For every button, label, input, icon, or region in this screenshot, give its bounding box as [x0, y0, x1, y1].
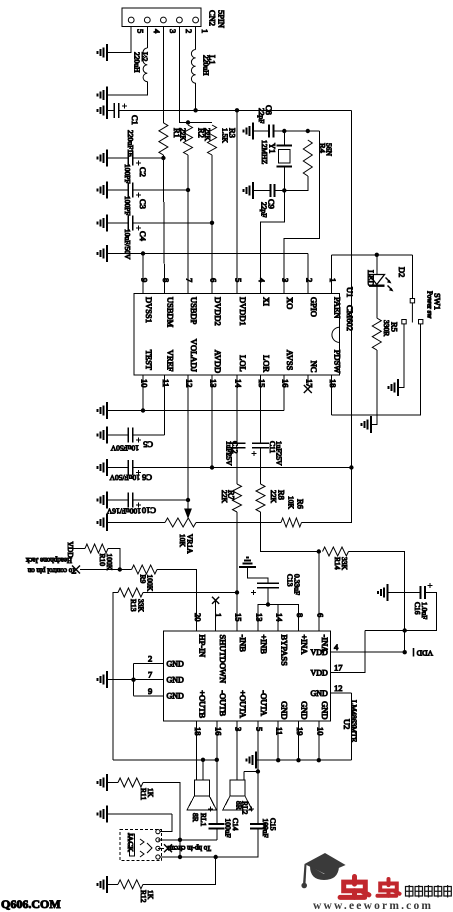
ground G13 for C5 — [98, 427, 108, 444]
wire C15 to jack line — [158, 829, 258, 858]
node C4-R3 junction — [210, 221, 214, 225]
capacitor C1 220uF16 — [114, 103, 119, 118]
node TEST junction — [141, 408, 145, 412]
svg-text:2: 2 — [304, 278, 314, 282]
wire C15 column — [257, 772, 259, 825]
svg-text:AVSS: AVSS — [285, 350, 295, 371]
wire R10 to node — [108, 549, 120, 570]
ground G17 for C13 — [239, 558, 256, 568]
svg-text:8R: 8R — [191, 813, 200, 822]
wire crystal bottom to XI — [261, 190, 285, 293]
svg-text:22K: 22K — [179, 128, 188, 142]
ground G21 for R11 — [98, 774, 108, 791]
speaker RL1 8R — [187, 760, 217, 810]
U2 bottom pin names — [198, 690, 330, 719]
svg-text:SHUTDOWN: SHUTDOWN — [218, 635, 228, 684]
svg-text:USBDM: USBDM — [166, 297, 176, 328]
svg-text:C10: C10 — [142, 506, 156, 516]
wire R1 to C2 node — [162, 155, 164, 158]
wire USBDP column — [187, 190, 189, 294]
node bus-railA junction — [349, 465, 353, 469]
svg-text:22K: 22K — [220, 490, 229, 504]
svg-text:VOLADJ: VOLADJ — [189, 339, 199, 373]
node R2 top junction — [186, 120, 190, 124]
svg-text:10K: 10K — [287, 496, 296, 510]
ground G8 for C8 — [244, 123, 254, 140]
wire GPIO pin stub — [307, 254, 309, 294]
U2 left GND pins 2 7 9 — [134, 654, 185, 701]
wire LOR pin stub — [260, 375, 262, 443]
svg-text:3: 3 — [281, 278, 291, 282]
svg-text:Q606.COM: Q606.COM — [1, 897, 61, 911]
ground G20 for U2 bottom — [247, 752, 257, 769]
U1 top pin names — [144, 297, 343, 328]
inductor L2 — [143, 48, 147, 82]
wire bypass bracket — [258, 605, 299, 632]
ground G23 for jack top contact — [98, 806, 108, 823]
svg-text:18: 18 — [193, 727, 203, 736]
wire CN2 pin2 down (USB D-) — [179, 27, 212, 123]
svg-text:+OUTB: +OUTB — [198, 690, 208, 718]
wire AVDD rail — [133, 467, 352, 469]
wire gnd to C13 — [248, 567, 269, 583]
LED D2 — [369, 275, 385, 286]
node bypass junction — [266, 602, 270, 606]
U2 top pin names — [198, 635, 330, 684]
ground G22 for R12 — [98, 876, 108, 893]
svg-text:16: 16 — [213, 727, 223, 736]
wire LOL pin stub — [236, 375, 238, 443]
wire DVDD1 column — [236, 110, 238, 293]
svg-text:www.eeworm.com: www.eeworm.com — [313, 900, 433, 912]
svg-text:13: 13 — [209, 379, 219, 388]
svg-text:R8: R8 — [277, 490, 287, 500]
svg-text:To control pin on: To control pin on — [27, 567, 76, 575]
wire PAEN to SW1 — [411, 255, 413, 299]
resistor R14 33K — [323, 547, 349, 556]
svg-text:PAEN: PAEN — [333, 297, 343, 318]
ground G14 for C6 — [98, 459, 108, 476]
svg-text:56N: 56N — [325, 143, 334, 157]
svg-text:100PF: 100PF — [123, 164, 132, 184]
ground G2 — [98, 86, 108, 103]
svg-text:2: 2 — [148, 654, 152, 664]
svg-text:5PIN: 5PIN — [217, 10, 227, 28]
svg-text:2: 2 — [184, 29, 194, 33]
wire C14 to jack line — [216, 829, 218, 840]
wire jack circle1 riser — [158, 814, 172, 831]
wire VDD to R10 — [68, 548, 85, 550]
switch SW1 Power sw — [402, 299, 423, 324]
node -INA junction — [317, 549, 321, 553]
connector CN2 5PIN — [122, 8, 201, 27]
svg-text:VDD: VDD — [66, 542, 75, 559]
svg-text:7: 7 — [148, 670, 152, 680]
node VOLADJ-wiper junction — [186, 498, 190, 502]
svg-text:19: 19 — [295, 727, 305, 736]
no-connect X on jack circle3 — [158, 847, 164, 849]
ground G15 for C10 — [98, 492, 108, 509]
svg-text:6: 6 — [209, 278, 219, 282]
svg-text:33K: 33K — [137, 599, 146, 613]
svg-text:-OUTB: -OUTB — [218, 690, 228, 716]
VDD terminal right — [413, 648, 415, 657]
svg-text:9: 9 — [140, 278, 150, 282]
wire CN2 pin1 to L1 — [195, 27, 197, 50]
wire R8 to -INA jog — [261, 512, 319, 552]
svg-text:14: 14 — [275, 613, 285, 622]
SHUTDOWN pin stub — [215, 601, 217, 631]
no-connect X on NC pin17 — [307, 375, 309, 386]
node DVSS1 junction — [141, 251, 145, 255]
svg-text:TEST: TEST — [144, 350, 154, 371]
svg-text:To hp-in circuit: To hp-in circuit — [168, 844, 211, 852]
svg-text:C15: C15 — [269, 818, 278, 831]
U1 bottom pin numbers 10..18 — [140, 379, 339, 388]
resistor R11 1K — [118, 778, 143, 787]
wire PAEN pin stub — [331, 255, 333, 294]
node R12 riser junction — [214, 855, 218, 859]
wire L1 to VDD rail — [195, 83, 197, 110]
wire GND pin stubs — [278, 721, 319, 760]
wire pin12 to ground rail — [350, 693, 352, 760]
svg-text:LED: LED — [366, 270, 376, 287]
ground G1 — [98, 44, 108, 61]
svg-text:11: 11 — [275, 727, 285, 735]
svg-text:LOR: LOR — [262, 355, 272, 372]
resistor R8 — [260, 448, 262, 484]
capacitor C8 22pF — [253, 130, 269, 132]
wire AVDD pin stub — [211, 375, 213, 468]
svg-text:DVSS1: DVSS1 — [144, 297, 154, 323]
ground G11 for SW1 — [389, 379, 399, 396]
wire PAEN rail — [332, 254, 413, 256]
no-connect X on SHUTDOWN — [212, 597, 219, 604]
svg-text:USBDP: USBDP — [189, 297, 199, 325]
svg-text:RL1: RL1 — [199, 813, 208, 827]
wire -INA column — [318, 552, 320, 632]
node crystal bottom — [282, 188, 286, 192]
wire C4 to node — [133, 222, 212, 224]
wire -OUTA to RL2 — [244, 771, 258, 773]
op-amp U1 CM602 body — [134, 294, 340, 376]
U2 right pins 4 17 12 — [310, 642, 404, 698]
svg-text:12: 12 — [334, 683, 343, 693]
svg-text:RL2: RL2 — [241, 801, 250, 815]
svg-text:20: 20 — [193, 613, 203, 622]
ground G4 for C2 — [98, 150, 108, 167]
svg-text:1uF25V: 1uF25V — [275, 441, 284, 466]
ground G5 for C3 — [98, 182, 108, 199]
svg-text:R5: R5 — [390, 322, 400, 332]
node DVDD1-rail junction — [235, 108, 239, 112]
resistor R6 — [281, 518, 302, 527]
svg-text:1K: 1K — [146, 788, 155, 798]
svg-text:+INA: +INA — [300, 635, 310, 656]
svg-text:D2: D2 — [397, 267, 407, 277]
svg-text:GND: GND — [300, 701, 310, 719]
node GND bracket junction — [131, 678, 135, 682]
wire CN2 pin5 to ground — [107, 27, 131, 53]
svg-text:VR1A: VR1A — [186, 534, 195, 554]
resistor R3 — [208, 125, 217, 155]
node jack-R11 column top — [178, 838, 182, 842]
resistor R10 100K — [85, 544, 108, 553]
node R4 top — [306, 129, 310, 133]
wire DVDD2 column — [211, 223, 213, 294]
svg-text:-OUTA: -OUTA — [259, 690, 269, 717]
op-amp U2 LM4863MTE body — [164, 631, 331, 721]
wire jack ground line — [107, 813, 172, 815]
inductor L1 — [191, 50, 195, 84]
U1 top pin numbers 9..1 — [140, 278, 339, 283]
node jack-R12 junction — [178, 855, 182, 859]
svg-text:10uF50V: 10uF50V — [110, 444, 139, 453]
svg-text:NC: NC — [309, 361, 319, 373]
ground G10 for R5 — [362, 416, 372, 433]
svg-text:5: 5 — [234, 278, 244, 282]
potentiometer VR1A 10K — [165, 518, 196, 527]
svg-text:AVDD: AVDD — [213, 350, 223, 373]
svg-text:1K: 1K — [146, 890, 155, 900]
svg-text:100K: 100K — [146, 575, 155, 592]
wire R12 to jack riser — [143, 857, 216, 884]
VR1A wiper arrow — [187, 500, 189, 509]
svg-text:0.33uF: 0.33uF — [293, 574, 302, 595]
ground G19 for U2 left — [98, 671, 108, 688]
wire BYPASS pin stub — [277, 605, 279, 632]
svg-text:1.0uF: 1.0uF — [420, 602, 429, 619]
svg-text:10: 10 — [140, 379, 150, 388]
node C3-R2 junction — [186, 188, 190, 192]
headphone jack dashed box — [120, 830, 162, 861]
U1 bottom pin names — [144, 339, 343, 374]
capacitor C11 1uF25V — [252, 443, 269, 448]
ground G3 for C1 — [98, 102, 108, 119]
svg-text:16: 16 — [281, 379, 291, 388]
node C2-R1 junction — [161, 156, 165, 160]
wire R3 to C4 node — [211, 155, 213, 223]
ground G6 for C4 — [98, 214, 108, 231]
wire DVSS1 pin stub — [142, 254, 144, 294]
node AVDD junction — [210, 465, 214, 469]
node R13 - INB junction — [235, 590, 239, 594]
ground G16 for VR1A — [98, 514, 108, 531]
node R10-R9 junction — [118, 567, 122, 571]
capacitor C14 100uF — [208, 807, 213, 812]
ground G9 for C9 — [244, 182, 254, 199]
pin numbers CN2 — [136, 29, 210, 34]
capacitor C13 0.33uF — [257, 583, 279, 587]
wire TEST pin stub — [142, 375, 144, 411]
node L1-rail junction — [193, 108, 197, 112]
wire +OUTA to speaker — [236, 721, 238, 780]
capacitor C16 1.0uF — [388, 592, 421, 594]
wire jack circle2 to C14 line — [158, 839, 217, 841]
svg-text:9: 9 — [148, 686, 152, 696]
wire USBDM column — [163, 158, 164, 294]
svg-text:C2: C2 — [138, 167, 148, 177]
svg-text:1: 1 — [213, 613, 223, 617]
svg-text:100K: 100K — [105, 554, 114, 571]
svg-text:33K: 33K — [340, 557, 349, 571]
svg-text:CN2: CN2 — [208, 10, 218, 26]
wire C2 to node — [133, 157, 164, 159]
wire crystal top to XO — [284, 131, 319, 294]
svg-text:GPIO: GPIO — [309, 297, 319, 317]
svg-text:-INB: -INB — [238, 635, 248, 653]
resistor R13 33K — [118, 588, 143, 597]
wire R5 to ground — [371, 350, 377, 424]
resistor R5 — [372, 318, 381, 350]
resistor R12 1K — [118, 880, 143, 889]
node -OUTA junction — [256, 769, 260, 773]
wire C13 to bypass bracket — [267, 588, 269, 605]
wire R6 to VDD bus — [302, 522, 352, 525]
svg-text:11: 11 — [161, 379, 171, 387]
ground G12 for TEST rail — [98, 402, 108, 419]
svg-text:DVDD1: DVDD1 — [238, 297, 248, 326]
svg-text:XI: XI — [262, 297, 272, 306]
svg-text:220uF16: 220uF16 — [126, 130, 135, 157]
svg-text:VDD: VDD — [310, 668, 328, 677]
svg-text:XO: XO — [285, 297, 295, 309]
wire bracket to ground — [107, 679, 134, 681]
capacitor C6 10uF/50V — [107, 467, 128, 469]
wire -OUTA column — [257, 721, 259, 772]
resistor R7 — [236, 448, 238, 484]
capacitor C15 100uF — [249, 807, 254, 812]
node GND pin11 — [276, 758, 280, 762]
capacitor C10 100uF/16V — [107, 499, 128, 501]
svg-text:CM602: CM602 — [345, 305, 355, 331]
wire R11 to jack — [143, 783, 180, 858]
svg-text:VREF: VREF — [166, 350, 176, 372]
svg-text:BYPASS: BYPASS — [279, 635, 289, 667]
wire C16 to VDD node — [365, 593, 437, 631]
capacitor C5 10uF50V — [107, 434, 128, 436]
resistor R9 100K — [120, 569, 132, 571]
LED D2 arrows — [386, 278, 394, 292]
svg-text:12: 12 — [185, 379, 195, 388]
wire CN2 pin4 to L2 — [146, 27, 148, 49]
wire gnd to C1 — [107, 109, 114, 111]
wire LED anode — [376, 255, 378, 275]
wire VDD bus right side — [350, 110, 352, 523]
resistor R1 — [159, 123, 168, 155]
svg-text:6: 6 — [315, 613, 325, 617]
watermark chongchong red character 2 — [377, 879, 399, 896]
watermark graduation cap logo — [301, 853, 345, 888]
node crystal top — [282, 129, 286, 133]
wire R4 bottom to crystal bottom — [284, 176, 308, 190]
svg-text:R6: R6 — [296, 499, 306, 509]
svg-text:1: 1 — [328, 278, 338, 282]
node C16-VDD junction — [403, 628, 407, 632]
svg-text:GND: GND — [279, 701, 289, 719]
svg-text:18: 18 — [328, 379, 338, 388]
wire DVSS1 ground rail — [107, 253, 308, 255]
svg-text:GND: GND — [320, 701, 330, 719]
speaker RL2 8R — [223, 772, 253, 811]
svg-text:Power sw: Power sw — [426, 291, 434, 319]
svg-text:VDD: VDD — [310, 648, 328, 657]
node GND pin19 — [296, 758, 300, 762]
svg-text:1uF25V: 1uF25V — [225, 441, 234, 466]
wire AVSS pin stub — [283, 375, 285, 411]
wire -OUTB column — [216, 721, 218, 824]
svg-text:R3: R3 — [228, 128, 238, 138]
svg-text:10uF/50V: 10uF/50V — [123, 229, 132, 260]
wire R13 feedback rail — [113, 759, 217, 761]
capacitor C12 1uF25V — [229, 443, 246, 448]
svg-text:13: 13 — [254, 613, 264, 622]
svg-text:5: 5 — [136, 29, 146, 33]
watermark chongchong red character 1 — [340, 877, 369, 898]
capacitor C4 10uF/50V — [107, 222, 128, 224]
svg-text:220uH: 220uH — [133, 52, 142, 73]
VDD terminal left — [67, 542, 69, 549]
wire VREF pin stub — [164, 375, 166, 435]
wire U2 GND rail — [256, 759, 351, 761]
wire R13 to -INB node — [143, 592, 237, 594]
svg-text:12MHZ: 12MHZ — [260, 140, 269, 165]
ground G18 for C16 — [378, 584, 388, 601]
svg-text:+OUTA: +OUTA — [238, 690, 248, 719]
wire TEST/AVSS ground rail — [107, 410, 284, 412]
svg-text:15: 15 — [234, 613, 244, 622]
capacitor C3 100PF — [107, 189, 128, 191]
wire R9 to HP-IN — [157, 570, 197, 632]
node pin4 VDD junction — [403, 650, 407, 654]
wire SW1 left contact to ground — [398, 324, 404, 388]
svg-text:LOL: LOL — [238, 355, 248, 372]
wire C8 to crystal top node — [274, 130, 320, 132]
node speaker RL1 junction — [201, 758, 205, 762]
resistor R4 — [303, 140, 312, 176]
svg-text:LM4863MTE: LM4863MTE — [350, 700, 359, 743]
U2 bottom pin numbers — [193, 727, 325, 736]
svg-text:GND: GND — [167, 692, 185, 701]
svg-text:100uF/16V: 100uF/16V — [106, 507, 141, 516]
capacitor C2 100PF — [107, 157, 128, 159]
svg-text:C4: C4 — [138, 231, 148, 242]
wire L2 to ground — [107, 82, 147, 95]
wire R2 to C3 node — [187, 155, 189, 190]
svg-text:8: 8 — [161, 278, 171, 282]
svg-text:C6: C6 — [142, 473, 152, 483]
svg-text:GND: GND — [167, 676, 185, 685]
svg-text:14: 14 — [234, 379, 244, 388]
wire R14 to VDD column — [349, 552, 405, 653]
wire VOLADJ pin stub — [187, 375, 189, 500]
svg-text:HP-IN: HP-IN — [198, 635, 208, 658]
svg-text:7: 7 — [185, 278, 195, 282]
svg-text:10uF/50V: 10uF/50V — [109, 473, 140, 482]
wire LED cathode to R5 — [376, 286, 378, 318]
resistor R2 — [184, 125, 193, 155]
capacitor C9 22pF — [253, 189, 271, 191]
svg-text:+INB: +INB — [259, 635, 269, 655]
svg-text:5: 5 — [254, 727, 264, 731]
svg-text:DVDD2: DVDD2 — [213, 297, 223, 326]
svg-text:GND: GND — [167, 659, 185, 668]
wire VDD pin17 jog — [331, 631, 365, 673]
node GND pin10 — [317, 758, 321, 762]
U2 top pin numbers — [193, 613, 325, 622]
svg-text:15: 15 — [257, 379, 267, 388]
jack contact circles — [156, 830, 160, 860]
